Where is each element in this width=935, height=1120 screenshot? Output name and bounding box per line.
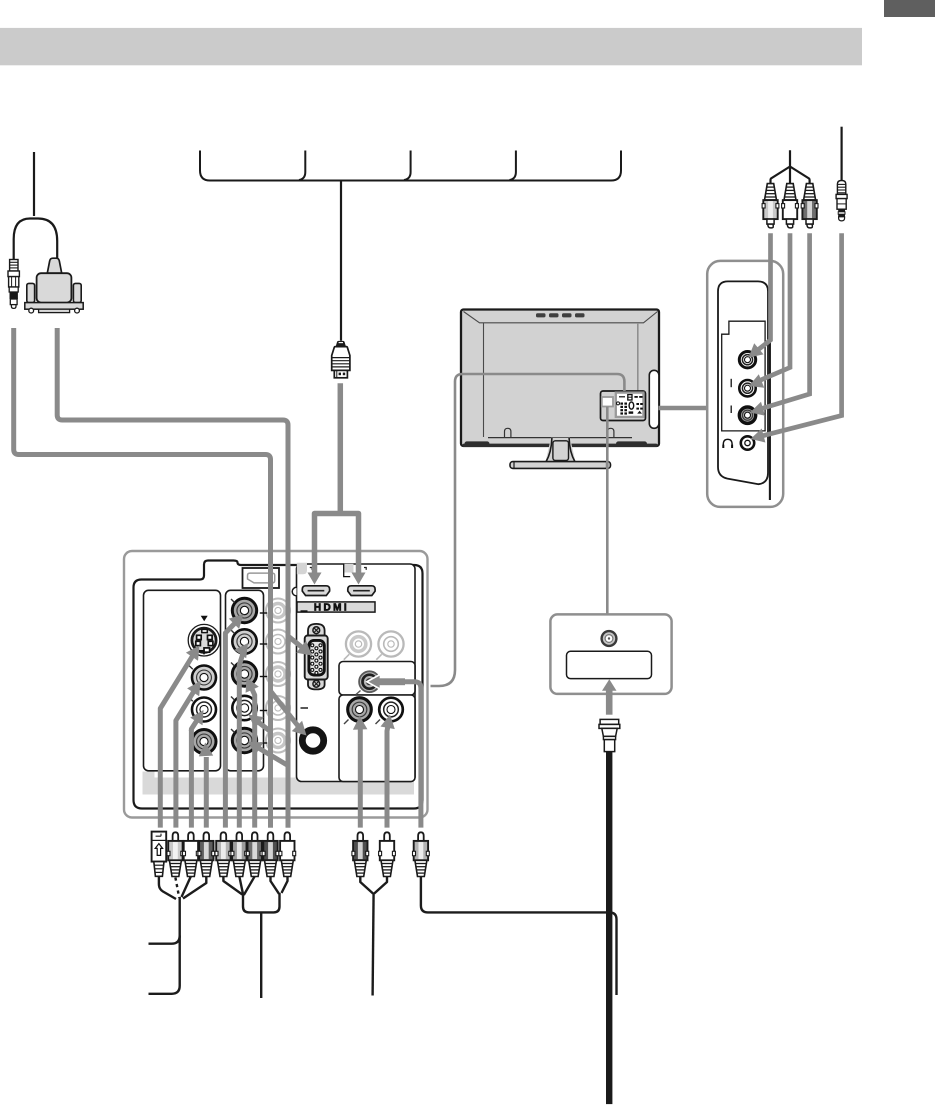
component audio L jack	[232, 696, 256, 720]
PC VGA port	[305, 624, 328, 690]
headphone icon	[722, 439, 733, 448]
arrow to component L jack	[256, 720, 271, 828]
PC audio L jack (faded)	[344, 631, 371, 659]
side jack plate	[722, 321, 765, 431]
out L plug	[352, 832, 369, 876]
component L plug	[262, 832, 279, 876]
audio L plug (white)	[782, 184, 799, 228]
TV rear body	[461, 310, 659, 448]
bracket tick 3	[510, 151, 516, 181]
PC audio mini plug	[8, 260, 19, 309]
HDMI label bar	[297, 602, 375, 612]
side video in jack	[739, 352, 755, 368]
video1 section box	[144, 590, 221, 771]
arrow to video1 R jack	[204, 757, 209, 828]
S-video jack	[188, 624, 220, 656]
section notch	[292, 587, 296, 596]
component Pr jack	[232, 662, 256, 686]
TV side edge outline	[718, 281, 768, 484]
side jack divider dash 2	[730, 406, 732, 414]
video1 R plug	[198, 832, 215, 876]
arrow to S-video jack	[160, 656, 192, 828]
rear panel plate outline	[134, 561, 423, 809]
TV stand base	[510, 462, 611, 469]
cable box	[339, 662, 415, 696]
HDMI port tab 1	[297, 563, 307, 575]
arrow to video1 video jack	[176, 691, 194, 828]
PC VGA cord arrow	[288, 633, 306, 650]
arrow to component Pb jack	[239, 654, 243, 828]
out cord branches	[360, 876, 373, 893]
component cord junction	[243, 893, 280, 912]
audio R plug (red)	[801, 184, 818, 228]
component main cord	[260, 912, 262, 998]
video1 audio L jack	[192, 698, 216, 722]
video1 L plug	[183, 832, 200, 876]
bracket tick 2	[404, 151, 411, 181]
wire TV box to antenna outlet	[606, 407, 609, 614]
component section box	[226, 590, 264, 771]
side audio L jack	[739, 380, 755, 396]
side audio R jack	[739, 407, 755, 423]
HDMI port 1	[302, 586, 329, 596]
S-video mark	[201, 616, 208, 622]
cord audio R to side jack	[757, 233, 810, 410]
arrow to component Pr jack	[252, 688, 255, 828]
component 2 jack (faded) 5	[266, 729, 290, 753]
component audio R jack	[232, 728, 256, 752]
PC VGA cord	[57, 328, 288, 828]
HDMI port 2	[348, 586, 375, 596]
headphone mini plug wire	[840, 127, 842, 181]
side panel detail box	[707, 261, 783, 507]
HDMI cord wire	[340, 181, 342, 341]
group1 cord R branch	[183, 876, 206, 898]
antenna wall outlet box	[550, 614, 671, 694]
out main cord	[373, 893, 374, 996]
side jack divider dash 1	[730, 379, 732, 387]
PC cord split wire	[14, 219, 58, 261]
page banner bar	[0, 28, 862, 65]
TV side bezel line	[769, 281, 771, 500]
cord headphone to side jack	[758, 233, 842, 437]
video1 video plug	[167, 832, 184, 876]
cable coax jack	[356, 671, 380, 694]
antenna F connector	[599, 719, 620, 751]
PC audio cord arrow	[271, 688, 303, 731]
component Pb plug	[231, 832, 248, 876]
component R plug	[279, 832, 296, 876]
PC cord stem wire	[33, 152, 35, 216]
group1 main cord	[149, 897, 180, 994]
group1 cord L branch	[182, 876, 191, 897]
out R plug	[379, 832, 396, 876]
row tick right 2	[301, 707, 309, 709]
arrow into outlet	[606, 689, 613, 715]
component cord branches	[223, 876, 242, 894]
row tick	[260, 643, 267, 645]
component Pb jack	[232, 629, 256, 653]
HDMI cord to ports	[315, 383, 359, 573]
row tick right 1	[301, 610, 308, 612]
group1 cord S-video branch	[159, 876, 176, 899]
TV side door	[649, 370, 659, 428]
AV cord Y split wire	[771, 150, 810, 183]
outlet face plate	[567, 651, 652, 678]
antenna cable	[606, 752, 612, 1105]
component Y jack	[232, 598, 256, 622]
video1 video jack	[192, 666, 216, 690]
S-video plug	[152, 832, 167, 877]
row tick	[260, 710, 267, 712]
TV AV terminal box	[601, 391, 646, 421]
page corner tab	[884, 0, 935, 17]
component Y plug	[215, 832, 232, 876]
group1 upper tap cord	[149, 936, 180, 944]
arrow to audio out R	[387, 723, 389, 828]
equipment bracket brace	[200, 151, 621, 181]
row tick	[260, 742, 267, 744]
HDMI connector	[332, 341, 350, 378]
row tick	[260, 676, 267, 678]
TV stand neck	[546, 438, 576, 462]
arrow to audio out L	[358, 729, 363, 828]
HDMI PC section box	[297, 564, 416, 782]
wire TV box to rear panel	[431, 374, 625, 686]
arrow to video1 L jack	[191, 718, 198, 828]
bracket tick 1	[299, 151, 305, 181]
component 2 jack (faded) 2	[266, 630, 290, 654]
headphone jack	[741, 436, 754, 449]
component 2 jack (faded) 1	[266, 599, 290, 623]
out coax plug	[413, 832, 430, 876]
audio out R jack	[379, 698, 403, 722]
TV back seam line	[637, 323, 639, 391]
cable cord to coax jack	[402, 682, 421, 828]
svg-text:HDMI: HDMI	[314, 602, 349, 613]
rear panel lower strip	[143, 772, 415, 795]
coax cord	[421, 876, 617, 995]
HDMI port tab 2	[344, 564, 353, 573]
outlet coax jack	[602, 631, 617, 646]
audio out jack tails	[344, 720, 380, 725]
PC audio R jack (faded)	[376, 631, 403, 659]
component 2 jack (faded) 4	[266, 696, 290, 720]
PC VGA connector	[25, 258, 83, 313]
row tick	[260, 612, 267, 614]
DC-in socket	[243, 568, 280, 588]
component 2 jack (faded) 3	[266, 662, 290, 686]
audio out box	[339, 695, 415, 782]
group1 cord dashed branch	[175, 878, 179, 898]
cord video to side jack	[754, 233, 771, 353]
component Pr plug	[246, 832, 263, 876]
left jack tails	[189, 666, 193, 670]
arrow to component Y jack	[225, 622, 236, 828]
PC audio cord	[14, 328, 271, 828]
arrow to component R jack	[256, 747, 288, 828]
wire TV to side panel	[659, 406, 708, 410]
video plug (yellow)	[762, 184, 779, 228]
PC audio in mini jack	[302, 730, 323, 751]
audio out L jack	[348, 698, 372, 722]
headphone mini plug	[836, 181, 847, 221]
cord audio L to side jack	[756, 233, 790, 382]
video1 audio R jack	[192, 730, 216, 754]
rear panel outer frame	[124, 551, 428, 818]
